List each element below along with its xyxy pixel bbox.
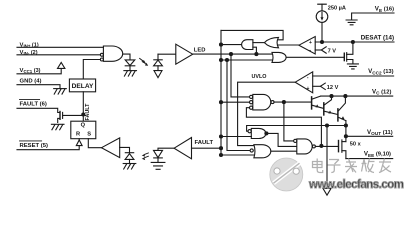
node VE (16) label — [375, 6, 394, 13]
junction V1 fault buffer tap — [220, 147, 223, 150]
transistor Q5 darlington 2 — [324, 96, 338, 115]
junction VOUT sense rail — [344, 124, 347, 127]
junction LED net at gate A input — [255, 53, 258, 56]
current source I1 250uA — [316, 4, 328, 42]
junction FAULT net gate tap — [82, 113, 85, 116]
wire net V2 vertical to gate F middle — [227, 60, 251, 151]
light arrows D1 to D2 — [140, 58, 149, 65]
wire VEE arrow drop — [326, 126, 328, 189]
bubble D output — [271, 101, 274, 104]
node FAULT vertical label — [85, 103, 91, 121]
svg-text:7 V: 7 V — [328, 49, 337, 55]
wire gate A output to V1 — [221, 44, 241, 46]
junction VOUT pin — [344, 135, 347, 138]
bubble D in1 — [250, 95, 253, 98]
junction V1 y155.8 — [220, 154, 223, 157]
wire GND — [17, 85, 60, 89]
svg-text:VEE (9,10): VEE (9,10) — [364, 151, 391, 158]
junction V1 y102 — [220, 101, 223, 104]
wire gate F output to gate G input 3 — [271, 150, 297, 152]
wire VC rail — [321, 95, 393, 97]
light arrows D4 to D3 — [142, 153, 149, 160]
photodiode D3 receive — [125, 153, 134, 164]
junction feedback on G output net — [320, 144, 323, 147]
or-gate C — [272, 52, 286, 62]
svg-text:DELAY: DELAY — [72, 83, 94, 90]
node VOUT (11) label — [367, 129, 393, 136]
node DESAT (14) label — [361, 35, 394, 42]
svg-text:FAULT: FAULT — [195, 140, 214, 146]
wire D output down to gate G input 1 — [284, 102, 294, 141]
svg-text:R: R — [76, 132, 80, 138]
junction E output — [265, 132, 268, 135]
bubble D in3 — [250, 106, 253, 109]
wire D2 to buffer — [158, 53, 176, 55]
bubble G in1 — [294, 139, 297, 142]
node 250 uA label — [328, 6, 346, 12]
wire net fault-latch V1 vertical — [220, 30, 222, 155]
node GND (4) label — [20, 79, 42, 85]
wire gate A input 2 from LED net — [253, 47, 257, 54]
and-gate D driver — [253, 94, 271, 110]
junction V1 gate A out — [220, 43, 223, 46]
wire feedback loop gate D input 3 — [246, 108, 321, 146]
svg-text:VE (16): VE (16) — [375, 6, 394, 13]
comparator U6 DESAT — [299, 37, 315, 55]
ground earth under D4 — [151, 162, 165, 169]
flip-flop U3 RS latch — [71, 121, 96, 139]
reference 12V arrow — [313, 83, 326, 89]
svg-text:RESET (5): RESET (5) — [20, 143, 49, 149]
wire VCC2 pin — [313, 75, 394, 77]
and-gate U1 input AND — [103, 46, 122, 61]
svg-text:DESAT (14): DESAT (14) — [361, 35, 394, 42]
bubble U1 input 2 — [100, 53, 103, 56]
wire UVLO comparator output to gate F input 1 — [238, 82, 296, 145]
buffer small on R input — [76, 140, 82, 146]
node VCC2 (13) label — [368, 68, 394, 75]
node VC (12) label — [372, 88, 392, 95]
svg-text:12 V: 12 V — [327, 85, 339, 91]
mosfet Q3 open drain fault — [58, 112, 83, 123]
ground chassis under Q3 — [51, 124, 64, 130]
bubble G output — [312, 145, 315, 148]
svg-text:VOUT (11): VOUT (11) — [367, 129, 393, 136]
wire DELAY to flip-flop FAULT net — [82, 92, 84, 121]
svg-text:UVLO: UVLO — [252, 74, 267, 80]
wire DESAT net — [315, 41, 394, 43]
wire R input — [78, 139, 80, 140]
bubble E in1 — [248, 130, 251, 133]
arrow up VCC1 supply — [58, 62, 65, 68]
node VEE (9,10) label — [364, 151, 391, 158]
node UVLO label — [252, 74, 267, 80]
buffer U4 fault receive amp — [102, 138, 120, 158]
wire DESAT comparator output to gate B input — [278, 44, 299, 46]
junction V1 y60 — [220, 59, 223, 62]
LED D1 transmit — [125, 60, 135, 71]
transistor Q6 darlington 3 — [338, 96, 346, 121]
node FAULT label right — [195, 140, 214, 146]
wire VIN- to input gate bubble — [17, 54, 100, 56]
and-gate E — [251, 128, 266, 138]
wire VEE pin — [346, 158, 393, 160]
arrow down VEE — [323, 188, 331, 195]
svg-text:FAULT (6): FAULT (6) — [20, 101, 47, 107]
and-gate G — [297, 139, 312, 154]
svg-text:Q: Q — [81, 123, 86, 129]
ground earth under M1 — [347, 64, 358, 69]
arrow down under D2 — [154, 71, 162, 78]
wire net LED to OR gate C — [193, 53, 273, 55]
mosfet M1 blanking — [344, 42, 353, 64]
node VIN+ (1) label — [20, 42, 39, 48]
watermark logo circle — [270, 158, 303, 191]
wire DELAY output up to U1 input 3 — [83, 60, 100, 80]
junction V2 start — [226, 59, 229, 62]
wire VIN+ to input gate — [17, 46, 103, 48]
wire U4 input to photodiode D3 — [120, 147, 130, 152]
wire U5 input to fault net V1 — [192, 147, 222, 149]
svg-text:VCC2 (13): VCC2 (13) — [368, 68, 394, 75]
junction DESAT current source — [321, 41, 324, 44]
node VIN- (2) label — [20, 50, 38, 56]
junction DESAT mosfet drain — [351, 41, 354, 44]
svg-text:VCC1 (3): VCC1 (3) — [20, 68, 41, 74]
junction LED net at V3 — [230, 53, 233, 56]
svg-text:50 x: 50 x — [350, 141, 362, 147]
wire VCC1 — [17, 68, 61, 73]
node 50 x label — [350, 141, 362, 147]
junction D output tee — [282, 101, 285, 104]
wire V1 to OR C lower input — [221, 59, 273, 61]
wire V1 to gate E input 2 — [221, 136, 251, 138]
ground chassis under D3 — [123, 164, 136, 170]
wire net V3 LED vertical to gate D top — [231, 54, 250, 97]
buffer U5 fault drive amp — [174, 138, 191, 159]
node VCC1 (3) label — [20, 68, 41, 74]
ground earth VE — [346, 20, 357, 25]
svg-text:+: + — [309, 40, 312, 46]
wire RESET to R — [17, 146, 79, 150]
junction VC Q6 — [344, 95, 347, 98]
reference 7V arrow — [315, 47, 326, 53]
wire gate D output to Q1 base — [274, 101, 311, 103]
ground chassis GND1 — [54, 89, 67, 95]
svg-text:250 µA: 250 µA — [328, 6, 346, 12]
wire U1 output to LED1 — [123, 54, 130, 60]
bubble U1 input 3 — [100, 58, 103, 61]
wire S input to buffer U4 — [88, 139, 101, 148]
svg-text:+: + — [307, 86, 310, 92]
wire VOUT sense rail to gate E input 1 — [247, 126, 346, 132]
svg-text:LED: LED — [194, 48, 206, 54]
node RESET (5) label with overline — [20, 143, 49, 149]
ground chassis under D1 — [124, 71, 137, 77]
junction VC Q5 — [330, 95, 333, 98]
node FAULT (6) label with overline — [20, 101, 47, 107]
wire latch top loop — [221, 30, 283, 39]
transistor Q4 darlington 1 — [312, 96, 324, 109]
wire VOUT pin — [346, 135, 393, 137]
svg-text:GND (4): GND (4) — [20, 79, 42, 85]
bubble F in2 — [250, 149, 253, 152]
comparator U7 UVLO — [295, 72, 313, 93]
wire gate E output to gate G input 2 — [266, 133, 297, 146]
wire VE pin — [352, 13, 394, 20]
buffer U2 LED receive amp — [176, 44, 193, 64]
svg-text:www.elecfans.com: www.elecfans.com — [308, 179, 404, 191]
and-gate A mirrored — [242, 40, 253, 50]
or-gate F — [254, 145, 271, 158]
svg-text:FAULT: FAULT — [85, 103, 91, 121]
wire V1 to gate D input 2 — [221, 101, 250, 103]
bubble D in2 — [250, 101, 253, 104]
or-gate B mirrored — [264, 37, 278, 47]
svg-text:VC (12): VC (12) — [372, 88, 392, 95]
watermark text CJK — [313, 159, 392, 173]
wire V1 to gate F input 3 — [221, 154, 254, 156]
wire OR C output to blanking mosfet gate — [286, 56, 344, 58]
wire gate B output to gate A input — [253, 42, 265, 44]
mosfet M2 50x pulldown — [339, 140, 346, 159]
node LED label — [194, 48, 206, 54]
junction V1 y135.8 — [220, 135, 223, 138]
wire gate G output to 50x mosfet gate — [315, 145, 338, 147]
LED D4 fault transmit — [154, 148, 175, 162]
wire emitter to VOUT node — [345, 121, 347, 142]
block DELAY — [69, 79, 95, 92]
junction rail VEE drop — [326, 124, 329, 127]
wire FAULT pin to Q3 drain — [17, 108, 60, 112]
svg-text:S: S — [87, 132, 91, 138]
photodiode D2 receive — [154, 54, 163, 70]
